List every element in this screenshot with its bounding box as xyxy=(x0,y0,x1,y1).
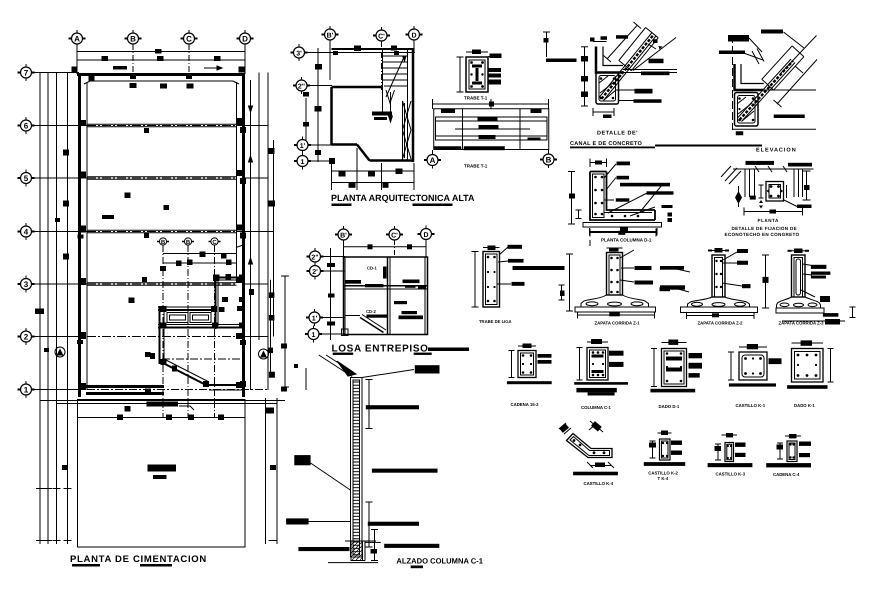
svg-text:B: B xyxy=(546,156,552,165)
svg-text:TRABE DE LIGA: TRABE DE LIGA xyxy=(479,319,512,324)
svg-text:ELEVACION: ELEVACION xyxy=(756,148,797,154)
svg-text:C': C' xyxy=(391,233,398,240)
svg-text:CASTILLO K-1: CASTILLO K-1 xyxy=(736,403,766,408)
svg-text:CASTILLO K-2: CASTILLO K-2 xyxy=(648,471,678,476)
svg-text:5: 5 xyxy=(24,174,29,183)
svg-text:ALZADO COLUMNA C-1: ALZADO COLUMNA C-1 xyxy=(396,557,483,566)
svg-text:2': 2' xyxy=(312,269,318,276)
svg-text:PLANTA ARQUITECTONICA ALTA: PLANTA ARQUITECTONICA ALTA xyxy=(331,193,475,203)
svg-text:1': 1' xyxy=(300,143,306,150)
svg-text:1: 1 xyxy=(24,386,29,395)
svg-text:COLUMNA C-1: COLUMNA C-1 xyxy=(581,405,612,410)
svg-text:ZAPATA CORRIDA Z-2: ZAPATA CORRIDA Z-2 xyxy=(698,321,744,326)
svg-text:DADO D-1: DADO D-1 xyxy=(659,404,680,409)
svg-text:B': B' xyxy=(340,233,347,240)
svg-text:DETALLE DE FIJACION DE: DETALLE DE FIJACION DE xyxy=(732,226,797,231)
svg-text:1: 1 xyxy=(301,159,305,166)
svg-text:D: D xyxy=(411,33,416,40)
svg-text:TRABE T-1: TRABE T-1 xyxy=(464,96,488,101)
svg-text:DADO K-1: DADO K-1 xyxy=(794,403,815,408)
svg-text:PLANTA COLUMNA D-1: PLANTA COLUMNA D-1 xyxy=(601,238,652,243)
svg-text:D: D xyxy=(242,35,248,44)
svg-text:2: 2 xyxy=(24,333,29,342)
svg-text:CANAL E DE CONCRETO: CANAL E DE CONCRETO xyxy=(570,141,643,147)
svg-text:TRABE T-1: TRABE T-1 xyxy=(464,164,488,169)
svg-text:CADENA C-4: CADENA C-4 xyxy=(773,472,800,477)
svg-text:DETALLE DE': DETALLE DE' xyxy=(597,131,638,137)
svg-text:ZAPATA CORRIDA Z-1: ZAPATA CORRIDA Z-1 xyxy=(595,321,641,326)
svg-text:A: A xyxy=(430,156,436,165)
svg-text:C': C' xyxy=(378,34,385,41)
svg-text:6: 6 xyxy=(24,122,29,131)
svg-text:B: B xyxy=(130,35,136,44)
svg-text:1': 1' xyxy=(312,316,318,323)
svg-text:2": 2" xyxy=(298,84,305,91)
svg-text:PLANTA: PLANTA xyxy=(758,218,779,223)
svg-text:CD-2: CD-2 xyxy=(366,309,376,314)
svg-text:PLANTA DE CIMENTACION: PLANTA DE CIMENTACION xyxy=(70,554,207,565)
svg-text:B: B xyxy=(161,239,166,246)
svg-text:3: 3 xyxy=(24,280,29,289)
svg-text:ZAPATA CORRIDA Z-3: ZAPATA CORRIDA Z-3 xyxy=(779,321,825,326)
svg-text:C: C xyxy=(212,239,217,246)
svg-text:ECONOTECHO EN CONGRETO: ECONOTECHO EN CONGRETO xyxy=(725,232,800,237)
svg-text:7: 7 xyxy=(24,69,29,78)
svg-text:2": 2" xyxy=(311,255,318,262)
svg-text:3': 3' xyxy=(296,51,302,58)
svg-text:CD-1: CD-1 xyxy=(367,265,377,270)
svg-text:D: D xyxy=(423,232,428,239)
svg-text:CASTILLO K-3: CASTILLO K-3 xyxy=(716,472,746,477)
svg-text:C: C xyxy=(186,35,192,44)
svg-text:CASTILLO K-4: CASTILLO K-4 xyxy=(584,481,614,486)
svg-text:T K-4: T K-4 xyxy=(658,476,669,481)
svg-text:B: B xyxy=(186,239,191,246)
svg-text:4: 4 xyxy=(24,228,29,237)
svg-text:CADENA 15-2: CADENA 15-2 xyxy=(511,402,540,407)
svg-text:1: 1 xyxy=(312,332,316,339)
svg-text:A: A xyxy=(74,35,80,44)
svg-text:B': B' xyxy=(327,33,334,40)
